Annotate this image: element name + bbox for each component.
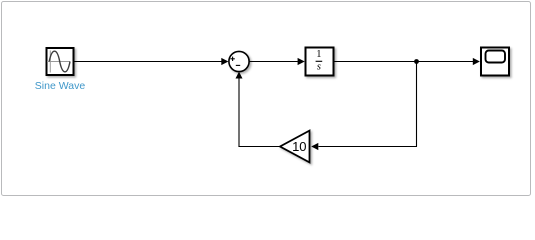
wire: Integrator to Scope bbox=[335, 58, 480, 65]
svg-text:10: 10 bbox=[292, 139, 306, 154]
sum plus sign bbox=[230, 57, 234, 61]
feedback wire: junction down bbox=[416, 62, 418, 147]
integrator fraction bar bbox=[316, 60, 323, 62]
junction node (branch dot) bbox=[414, 59, 419, 64]
sine icon curve bbox=[49, 51, 70, 72]
block: Sine Wave source bbox=[47, 48, 74, 75]
block: Gain 10 (triangle) bbox=[280, 131, 310, 163]
integrator denominator s bbox=[317, 62, 321, 73]
svg-text:s: s bbox=[317, 62, 321, 73]
canvas frame bbox=[2, 2, 531, 196]
feedback wire: up into Sum minus input bbox=[236, 72, 243, 147]
gain value 10 bbox=[292, 139, 306, 154]
wire: Sum to Integrator bbox=[249, 58, 305, 65]
wire: Sine Wave to Sum bbox=[75, 58, 229, 65]
scope screen bbox=[486, 51, 506, 63]
sine icon axes bbox=[47, 51, 70, 73]
block: Scope bbox=[481, 48, 509, 76]
integrator numerator 1 bbox=[316, 49, 321, 60]
sum minus sign bbox=[236, 64, 240, 66]
label: Sine Wave bbox=[35, 80, 86, 92]
feedback wire: Gain output to below Sum bbox=[238, 146, 280, 148]
svg-text:1: 1 bbox=[316, 49, 321, 60]
sum junction (round, +/-) bbox=[229, 51, 249, 71]
block: Integrator 1/s bbox=[306, 48, 334, 76]
svg-text:Sine Wave: Sine Wave bbox=[35, 80, 86, 92]
feedback wire: right corner to Gain bbox=[311, 143, 417, 150]
